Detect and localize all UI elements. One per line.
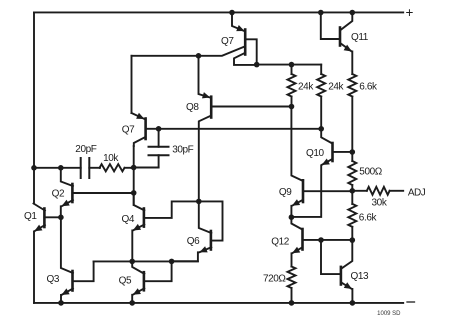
svg-text:Q7: Q7 [122, 125, 135, 136]
svg-text:30pF: 30pF [172, 144, 193, 155]
svg-text:Q8: Q8 [186, 102, 199, 113]
svg-text:10k: 10k [103, 153, 119, 164]
svg-text:Q3: Q3 [47, 274, 60, 285]
svg-text:Q2: Q2 [52, 188, 65, 199]
svg-text:Q6: Q6 [187, 236, 200, 247]
svg-text:1009 SD: 1009 SD [377, 311, 401, 317]
svg-text:Q5: Q5 [119, 276, 132, 287]
svg-text:500Ω: 500Ω [359, 167, 382, 178]
svg-text:Q7: Q7 [221, 36, 234, 47]
svg-text:20pF: 20pF [75, 144, 96, 155]
svg-text:720Ω: 720Ω [263, 273, 286, 284]
svg-text:Q1: Q1 [24, 211, 37, 222]
svg-text:24k: 24k [328, 81, 344, 92]
svg-text:6.6k: 6.6k [359, 212, 378, 223]
svg-text:30k: 30k [372, 197, 388, 208]
svg-text:Q11: Q11 [351, 32, 369, 43]
svg-text:6.6k: 6.6k [359, 81, 378, 92]
svg-text:Q10: Q10 [306, 148, 325, 159]
svg-text:Q13: Q13 [351, 271, 370, 282]
svg-text:Q9: Q9 [279, 187, 292, 198]
svg-text:Q4: Q4 [122, 214, 135, 225]
svg-text:24k: 24k [298, 81, 314, 92]
svg-text:ADJ: ADJ [408, 188, 426, 199]
svg-text:Q12: Q12 [271, 237, 290, 248]
svg-text:+: + [406, 5, 414, 20]
